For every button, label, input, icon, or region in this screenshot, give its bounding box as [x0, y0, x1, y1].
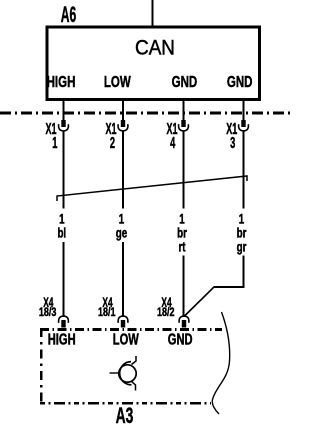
component A3 torn-edge wavy line [212, 312, 229, 414]
svg-text:GND: GND [168, 331, 193, 348]
wire br/rt mid segment [183, 131, 185, 209]
svg-text:18/3: 18/3 [39, 306, 57, 320]
connector X1 pin 3 [239, 120, 249, 131]
connector X1 pin 2 [118, 120, 128, 131]
svg-text:18/2: 18/2 [157, 306, 175, 320]
svg-text:A3: A3 [116, 403, 134, 428]
component A3 box left edge [40, 328, 43, 404]
svg-text:4: 4 [170, 133, 176, 151]
wire br/gr mid segment [243, 131, 245, 209]
wire bl mid segment [63, 131, 65, 209]
control unit A6 box [47, 27, 260, 100]
wire bl lower segment [63, 242, 65, 316]
svg-text:GND: GND [172, 72, 198, 90]
svg-text:LOW: LOW [113, 331, 139, 348]
svg-text:rt: rt [178, 239, 185, 255]
connector X4 pin 18/1 [118, 316, 128, 327]
svg-text:CAN: CAN [135, 36, 175, 59]
connector X1 pin 1 [59, 120, 69, 131]
svg-text:gr: gr [237, 239, 247, 255]
component A3 box top edge [40, 328, 222, 331]
wire GND2 upper segment [243, 99, 245, 121]
svg-text:HIGH: HIGH [48, 331, 76, 348]
harness slant line [57, 176, 247, 201]
connector X1 pin 4 [179, 120, 189, 131]
wire ge lower segment [122, 242, 124, 316]
wire LOW upper segment [122, 99, 124, 121]
wire GND upper segment [183, 99, 185, 121]
svg-text:18/1: 18/1 [98, 306, 116, 320]
svg-text:2: 2 [110, 133, 115, 151]
wire from A6 top off-page [152, 0, 154, 27]
svg-text:HIGH: HIGH [47, 72, 76, 90]
svg-text:A6: A6 [61, 2, 77, 27]
svg-text:3: 3 [230, 133, 235, 151]
wire HIGH upper segment [63, 99, 65, 121]
wire ge mid segment [122, 131, 124, 209]
connector X4 pin 18/2 [179, 316, 189, 327]
svg-text:LOW: LOW [104, 72, 132, 90]
wire br/rt lower segment [183, 256, 185, 317]
svg-text:ge: ge [116, 225, 128, 241]
svg-text:bl: bl [57, 225, 66, 241]
boundary dash-dot line [0, 111, 294, 114]
transceiver symbol in A3 [110, 356, 137, 391]
svg-text:1: 1 [52, 133, 57, 151]
wire br/gr lower segment with bend [214, 256, 244, 288]
component A3 box bottom edge [40, 402, 211, 405]
connector X4 pin 18/3 [59, 316, 69, 327]
svg-text:GND: GND [227, 72, 253, 90]
